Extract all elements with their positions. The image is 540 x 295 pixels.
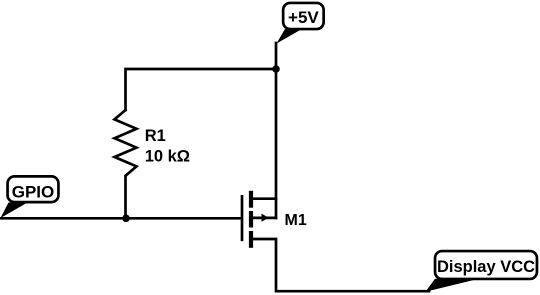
svg-text:M1: M1 [285,212,307,229]
svg-text:Display VCC: Display VCC [437,258,535,276]
svg-text:10 kΩ: 10 kΩ [145,147,190,165]
svg-text:GPIO: GPIO [12,183,55,202]
svg-text:R1: R1 [145,127,166,145]
svg-text:+5V: +5V [288,8,319,27]
